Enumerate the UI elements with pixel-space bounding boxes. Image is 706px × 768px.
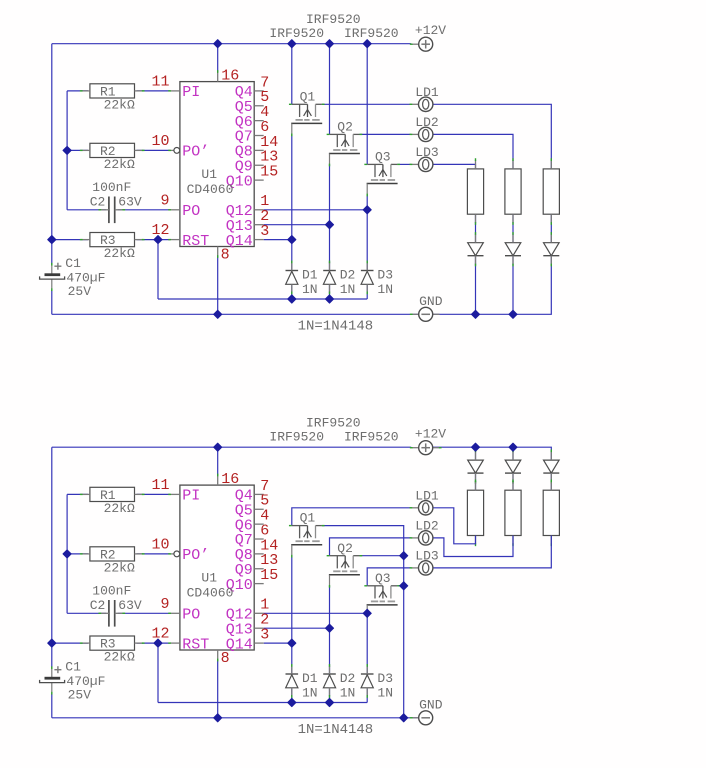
svg-text:LD3: LD3 xyxy=(415,549,438,564)
junction Q2 source/common vertical xyxy=(400,552,408,560)
svg-text:Q2: Q2 xyxy=(337,541,353,556)
wire Q3 source to common vertical xyxy=(397,585,403,587)
op-amp U1 CD4060 (14-stage counter IC) xyxy=(151,471,278,667)
wire Q2 gate net down to D2 xyxy=(329,165,331,270)
wire R3 to RST xyxy=(137,239,170,241)
label IRF9520 (Q2 value, bottom) xyxy=(306,416,361,431)
wire chain1 LED to GND rail xyxy=(475,256,477,314)
wire C2 to PO xyxy=(118,209,170,211)
connector LD1 (pad) xyxy=(410,489,439,516)
svg-text:PI: PI xyxy=(182,84,200,101)
resistor R2 22kohm xyxy=(80,143,145,172)
label IRF9520 (Q1 value, bottom) xyxy=(269,430,324,445)
wire R3 row xyxy=(52,239,88,241)
connector LD3 (pad) xyxy=(410,145,439,171)
svg-text:15: 15 xyxy=(260,164,278,181)
junction R2/left vertical xyxy=(63,146,71,154)
svg-text:RST: RST xyxy=(182,233,209,250)
svg-text:15: 15 xyxy=(260,567,278,584)
wire left +12V rail (top part) xyxy=(51,44,53,265)
wire D3 to diode rail xyxy=(366,285,368,299)
wire LED2 to resistor xyxy=(512,473,514,490)
wire Q1 gate net down to D1 xyxy=(291,556,293,674)
capacitor C2 100nF 63V xyxy=(90,584,142,627)
svg-text:C2: C2 xyxy=(90,195,106,210)
junction rail/pin16 xyxy=(214,40,222,48)
wire LD3 route to chain3 xyxy=(433,536,551,568)
svg-text:11: 11 xyxy=(151,477,169,494)
capacitor C1 470uF 25V (polarized) xyxy=(40,660,106,703)
transistor Q3 IRF9520 (P-MOSFET) xyxy=(364,571,400,618)
svg-text:Q1: Q1 xyxy=(300,511,316,526)
svg-text:100nF: 100nF xyxy=(92,180,131,195)
svg-text:8: 8 xyxy=(221,650,230,667)
wire pin8 to GND rail xyxy=(217,256,219,314)
wire +12V top rail xyxy=(52,43,411,45)
wire D1 to diode rail xyxy=(291,689,293,703)
wire LD3 to Q3 drain xyxy=(367,568,411,586)
svg-text:D3: D3 xyxy=(377,671,393,686)
wire LD1 to column3 chain xyxy=(433,104,551,169)
svg-text:C2: C2 xyxy=(90,598,106,613)
wire Q12 (pin1) to Q3 gate net xyxy=(264,209,368,211)
diode D3 1N4148 xyxy=(361,261,393,298)
svg-text:16: 16 xyxy=(221,68,239,85)
junction pin8/GND rail (bottom) xyxy=(214,714,222,722)
wire chain2 LED to GND rail xyxy=(512,256,514,314)
junction chain2/GND rail xyxy=(509,310,517,318)
wire R1 to PI xyxy=(137,493,170,495)
svg-text:RST: RST xyxy=(182,636,209,653)
junction D1/diode rail xyxy=(288,295,296,303)
transistor Q2 IRF9520 (P-MOSFET) xyxy=(327,120,363,167)
wire Q13 (pin2) to Q2 gate net xyxy=(264,627,330,629)
svg-text:D2: D2 xyxy=(340,268,356,283)
wire LD2 to column2 chain xyxy=(433,134,513,169)
svg-text:12: 12 xyxy=(151,626,169,643)
svg-text:C1: C1 xyxy=(65,660,81,675)
wire LED1 to resistor xyxy=(475,473,477,490)
junction D2/diode rail xyxy=(325,295,333,303)
diode D2 1N4148 xyxy=(323,664,355,701)
svg-text:IRF9520: IRF9520 xyxy=(269,430,324,445)
label 1N=1N4148 (bottom) xyxy=(298,722,374,738)
svg-text:22kΩ: 22kΩ xyxy=(104,157,135,172)
svg-text:Q2: Q2 xyxy=(337,120,353,135)
transistor Q3 IRF9520 (P-MOSFET) xyxy=(364,150,400,197)
svg-text:1N=1N4148: 1N=1N4148 xyxy=(298,318,374,334)
wire LD3 to column1 chain xyxy=(433,164,476,169)
wire pin16 to rail xyxy=(217,447,219,475)
resistor (LED series, column 3) xyxy=(543,158,559,225)
svg-text:IRF9520: IRF9520 xyxy=(306,416,361,431)
junction RST/R3 node (bottom) xyxy=(154,639,162,647)
junction Q13/Q2 gate xyxy=(325,221,333,229)
LED D1 (indicator diode, cathode down) xyxy=(468,232,484,266)
supply +12V xyxy=(410,23,446,51)
svg-text:LD1: LD1 xyxy=(415,489,439,504)
svg-text:D1: D1 xyxy=(302,268,318,283)
supply GND xyxy=(410,698,443,725)
junction Q14/Q1 gate (bottom) xyxy=(288,639,296,647)
svg-text:1N: 1N xyxy=(340,686,356,701)
wire R1 to PI xyxy=(137,90,170,92)
wire Q1 drain to LD1 xyxy=(322,103,411,105)
wire R2 to PO' xyxy=(137,149,170,151)
wire rail to Q3 source xyxy=(366,44,368,165)
wire diode return rail xyxy=(158,702,367,704)
svg-text:9: 9 xyxy=(160,596,169,613)
wire rail to Q1 source xyxy=(291,44,293,105)
wire Q14 (pin3) to Q1 gate net xyxy=(264,239,292,241)
junction rail/Q1 source xyxy=(288,40,296,48)
svg-text:LD2: LD2 xyxy=(415,115,438,130)
connector LD2 (pad) xyxy=(410,115,439,141)
wire R2 row xyxy=(67,149,88,151)
connector LD2 (pad) xyxy=(410,519,439,546)
wire Q13 (pin2) to Q2 gate net xyxy=(264,224,330,226)
junction Q12/Q3 gate xyxy=(363,206,371,214)
wire D1 to diode rail xyxy=(291,285,293,299)
wire LD1 route to chain1 xyxy=(433,508,476,544)
svg-text:3: 3 xyxy=(260,627,269,644)
svg-text:25V: 25V xyxy=(68,284,92,299)
wire C2 row left xyxy=(67,612,106,614)
resistor R1 22kohm xyxy=(80,487,145,516)
diode D1 1N4148 xyxy=(286,261,318,298)
junction Q12/Q3 gate (bottom) xyxy=(363,609,371,617)
junction rail/pin16 (bottom) xyxy=(214,443,222,451)
junction D2/diode rail (bottom) xyxy=(325,698,333,706)
LED D3 (indicator diode, cathode down) xyxy=(543,449,559,483)
resistor (LED series, column 2) xyxy=(505,158,521,225)
svg-text:PO’: PO’ xyxy=(182,547,209,564)
wire LD1 to Q1 drain xyxy=(292,508,411,526)
wire D3 to diode rail xyxy=(366,689,368,703)
diode D1 1N4148 xyxy=(286,664,318,701)
wire LD2 route to chain2 xyxy=(433,536,513,557)
op-amp U1 CD4060 (14-stage counter IC) xyxy=(151,68,278,264)
wire D2 to diode rail xyxy=(329,689,331,703)
svg-text:GND: GND xyxy=(419,294,443,309)
junction rail/chain1 xyxy=(471,443,479,451)
wire R1-R2-C2 left vertical xyxy=(66,91,68,210)
wire chain1 resistor to LED xyxy=(475,214,477,243)
label IRF9520 (Q2 value) xyxy=(306,12,361,27)
svg-text:22kΩ: 22kΩ xyxy=(104,561,135,576)
wire left +12V rail xyxy=(51,447,53,668)
svg-text:+12V: +12V xyxy=(415,23,446,38)
svg-text:10: 10 xyxy=(151,537,169,554)
svg-text:9: 9 xyxy=(160,192,169,209)
svg-text:D1: D1 xyxy=(302,671,318,686)
svg-text:LD2: LD2 xyxy=(415,519,438,534)
wire diode return rail xyxy=(158,298,367,300)
svg-text:GND: GND xyxy=(419,698,443,713)
LED D1 (indicator diode, cathode down) xyxy=(468,449,484,483)
svg-text:D3: D3 xyxy=(377,268,393,283)
connector LD3 (pad) xyxy=(410,549,439,576)
svg-text:1N: 1N xyxy=(340,282,356,297)
wire Q3 gate net down to D3 xyxy=(366,195,368,270)
svg-text:PI: PI xyxy=(182,488,200,505)
label IRF9520 (Q3 value) xyxy=(344,26,399,41)
svg-text:IRF9520: IRF9520 xyxy=(344,26,399,41)
wire Q14 (pin3) to Q1 gate net xyxy=(264,642,292,644)
svg-text:63V: 63V xyxy=(118,598,142,613)
junction left rail/R3 (bottom) xyxy=(48,639,56,647)
svg-text:22kΩ: 22kΩ xyxy=(104,246,135,261)
svg-text:10: 10 xyxy=(151,133,169,150)
svg-text:8: 8 xyxy=(221,246,230,263)
wire R2 to PO' xyxy=(137,553,170,555)
wire R1 row xyxy=(67,90,88,92)
wire Q1 gate net down to D1 xyxy=(291,134,293,270)
wire rail to LED chain2 xyxy=(512,447,514,460)
wire Q12 (pin1) to Q3 gate net xyxy=(264,612,368,614)
wire chain3 resistor to LED xyxy=(550,214,552,243)
supply +12V xyxy=(410,426,446,454)
junction D1/diode rail (bottom) xyxy=(288,698,296,706)
junction rail/Q2 source xyxy=(325,40,333,48)
supply GND xyxy=(410,294,443,321)
svg-text:Q14: Q14 xyxy=(226,233,253,250)
wire LED3 to resistor xyxy=(550,473,552,490)
wire left rail below C1 xyxy=(51,694,53,718)
resistor R1 22kohm xyxy=(80,84,145,113)
junction Q13/Q2 gate (bottom) xyxy=(325,624,333,632)
junction R2/left vertical (bottom) xyxy=(63,550,71,558)
diode D3 1N4148 xyxy=(361,664,393,701)
wire LD2 to Q2 drain xyxy=(330,538,412,556)
svg-text:D2: D2 xyxy=(340,671,356,686)
junction common vertical/GND rail xyxy=(400,714,408,722)
wire GND bottom rail xyxy=(52,313,419,315)
wire R3 to RST xyxy=(137,642,170,644)
svg-text:1N: 1N xyxy=(302,686,318,701)
wire pin8 to GND rail xyxy=(217,660,219,718)
wire R3 row xyxy=(52,642,88,644)
svg-text:Q3: Q3 xyxy=(375,150,391,165)
junction pin8/GND rail xyxy=(214,310,222,318)
capacitor C1 470uF 25V (polarized) xyxy=(40,256,106,299)
LED D3 (indicator diode, cathode down) xyxy=(543,232,559,266)
capacitor C2 100nF 63V xyxy=(90,180,142,223)
wire R1-R2-C2 left vertical xyxy=(66,494,68,613)
wire chain2 resistor to LED xyxy=(512,214,514,243)
svg-text:16: 16 xyxy=(221,471,239,488)
wire +12V top rail (bottom circuit) xyxy=(52,446,411,448)
svg-text:22kΩ: 22kΩ xyxy=(104,501,135,516)
wire Q2 drain to LD2 xyxy=(360,133,411,135)
wire pin16 to rail xyxy=(217,44,219,72)
svg-text:1N: 1N xyxy=(377,282,393,297)
wire GND rail right of symbol xyxy=(433,256,552,314)
transistor Q1 IRF9520 (P-MOSFET) xyxy=(289,89,325,136)
svg-text:Q3: Q3 xyxy=(375,571,391,586)
svg-text:LD1: LD1 xyxy=(415,85,439,100)
junction left rail/R3 xyxy=(48,236,56,244)
svg-text:IRF9520: IRF9520 xyxy=(269,26,324,41)
svg-text:LD3: LD3 xyxy=(415,145,438,160)
resistor R3 22kohm xyxy=(80,233,145,262)
resistor (LED series, column 1) xyxy=(467,158,483,225)
resistor R2 22kohm xyxy=(80,547,145,576)
junction Q14/Q1 gate xyxy=(288,236,296,244)
svg-text:11: 11 xyxy=(151,74,169,91)
resistor R3 22kohm xyxy=(80,636,145,665)
wire R2 row xyxy=(67,553,88,555)
wire rail right of +12V symbol xyxy=(433,447,552,460)
svg-text:IRF9520: IRF9520 xyxy=(344,430,399,445)
transistor Q2 IRF9520 (P-MOSFET) xyxy=(327,541,363,588)
svg-text:PO: PO xyxy=(182,607,200,624)
svg-text:Q14: Q14 xyxy=(226,636,253,653)
svg-text:1N: 1N xyxy=(302,282,318,297)
label IRF9520 (Q1 value) xyxy=(269,26,324,41)
svg-text:100nF: 100nF xyxy=(92,584,131,599)
junction chain1/GND rail xyxy=(471,310,479,318)
wire Q3 drain to LD3 xyxy=(397,163,411,165)
wire Q3 gate net down to D3 xyxy=(366,616,368,673)
svg-text:PO: PO xyxy=(182,203,200,220)
svg-text:1N: 1N xyxy=(377,686,393,701)
LED D2 (indicator diode, cathode down) xyxy=(505,232,521,266)
svg-text:IRF9520: IRF9520 xyxy=(306,12,361,27)
svg-text:U1: U1 xyxy=(201,167,217,182)
svg-text:3: 3 xyxy=(260,223,269,240)
resistor (LED series, column 3) xyxy=(543,480,559,547)
LED D2 (indicator diode, cathode down) xyxy=(505,449,521,483)
svg-text:22kΩ: 22kΩ xyxy=(104,650,135,665)
junction RST/R3 node xyxy=(154,236,162,244)
junction rail/chain2 xyxy=(509,443,517,451)
svg-text:25V: 25V xyxy=(68,688,92,703)
wire R1 row xyxy=(67,493,88,495)
wire Q1 source to common vertical xyxy=(322,526,404,718)
svg-text:+12V: +12V xyxy=(415,426,446,441)
wire C2 row left xyxy=(67,209,106,211)
svg-text:Q1: Q1 xyxy=(300,89,316,104)
wire Q2 gate net down to D2 xyxy=(329,586,331,674)
wire RST net down xyxy=(157,240,159,299)
wire rail to LED chain1 xyxy=(475,447,477,460)
svg-text:CD4060: CD4060 xyxy=(187,585,234,600)
svg-text:CD4060: CD4060 xyxy=(187,182,234,197)
svg-text:22kΩ: 22kΩ xyxy=(104,98,135,113)
junction rail/Q3 source xyxy=(363,40,371,48)
wire left rail below C1 xyxy=(51,290,53,314)
resistor (LED series, column 1) xyxy=(467,480,483,547)
wire rail to Q2 source xyxy=(329,44,331,135)
svg-text:PO’: PO’ xyxy=(182,144,209,161)
wire GND bottom rail xyxy=(52,717,419,719)
label IRF9520 (Q3 value, bottom) xyxy=(344,430,399,445)
wire Q2 source to common vertical xyxy=(360,555,404,557)
label 1N=1N4148 xyxy=(298,318,374,334)
diode D2 1N4148 xyxy=(323,261,355,298)
transistor Q1 IRF9520 (P-MOSFET) xyxy=(289,511,325,558)
svg-text:63V: 63V xyxy=(118,195,142,210)
wire C2 to PO xyxy=(118,612,170,614)
wire D2 to diode rail xyxy=(329,285,331,299)
svg-text:12: 12 xyxy=(151,222,169,239)
wire RST net down xyxy=(157,643,159,702)
svg-text:1N=1N4148: 1N=1N4148 xyxy=(298,722,374,738)
junction Q3 source/common vertical xyxy=(400,582,408,590)
svg-text:C1: C1 xyxy=(65,256,81,271)
resistor (LED series, column 2) xyxy=(505,480,521,547)
svg-text:U1: U1 xyxy=(201,570,217,585)
connector LD1 (pad) xyxy=(410,85,439,112)
